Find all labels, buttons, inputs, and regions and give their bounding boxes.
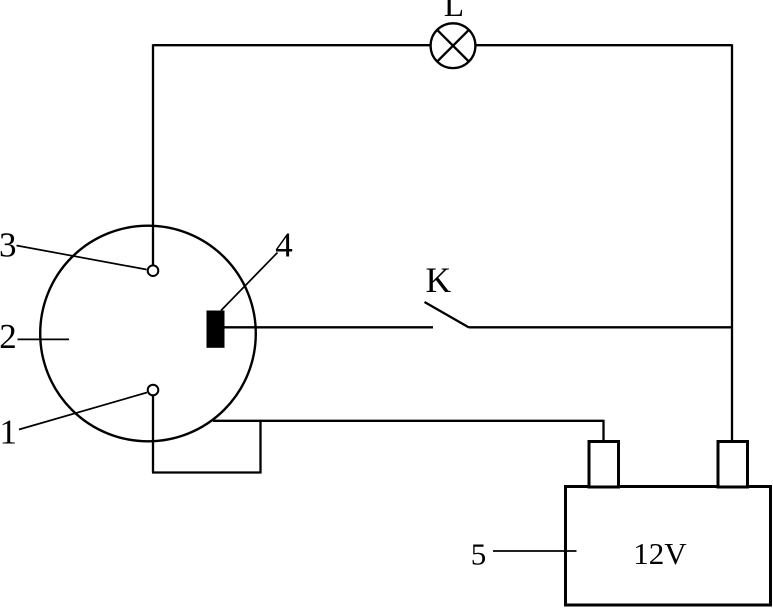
terminal 3 small circle [148,265,159,276]
svg-text:5: 5 [471,537,487,572]
leader line 1 [19,393,147,430]
terminal 1 small circle [148,385,159,396]
battery right terminal post [718,442,748,488]
battery 5 body [566,487,771,606]
svg-text:2: 2 [0,317,17,356]
wire terminal 1 down [152,396,154,473]
svg-text:12V: 12V [633,536,687,571]
wire from switch to right vertical [469,326,733,328]
leader line 2 [18,338,70,340]
lamp L [431,23,476,68]
svg-text:K: K [425,260,451,300]
distributor body circle 2 [40,226,256,442]
svg-text:4: 4 [275,226,293,265]
contact 4 black rectangle [207,311,225,348]
wire down into battery left terminal [602,420,604,442]
leader line 4 [221,253,278,311]
wire loop up to battery wire [259,420,261,474]
svg-text:3: 3 [0,226,16,265]
svg-text:L: L [444,0,464,24]
leader line 3 [17,246,147,270]
svg-text:1: 1 [0,412,17,451]
wire from circle edge to battery left terminal horizontal [213,420,604,422]
wire right vertical from top corner down to battery right terminal [731,44,733,442]
battery left terminal post [589,442,619,488]
wire from contact 4 to switch [225,326,434,328]
wire top horizontal from left corner to right corner [153,44,732,46]
leader line 5 [493,550,577,552]
wire loop bottom horizontal [152,471,261,473]
switch K lever [425,302,470,328]
wire left vertical from top corner down to terminal 3 [152,44,154,266]
